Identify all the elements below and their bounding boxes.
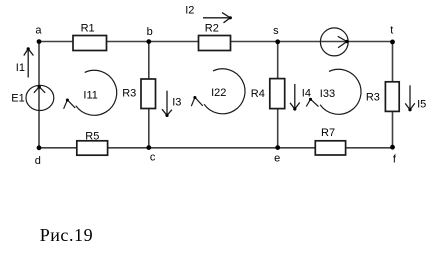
- resistor R1: [73, 36, 107, 51]
- arrow I5 dot: [408, 108, 411, 111]
- current source arrow dot: [345, 40, 348, 43]
- arrow I1 dot: [27, 47, 30, 50]
- svg-text:I4: I4: [302, 87, 311, 99]
- resistor R4: [270, 79, 285, 109]
- svg-text:E1: E1: [11, 93, 24, 105]
- mesh loop I33 arc: [320, 69, 361, 114]
- svg-text:R1: R1: [81, 23, 95, 35]
- svg-text:d: d: [35, 155, 41, 167]
- svg-text:I3: I3: [172, 97, 181, 109]
- svg-text:a: a: [35, 24, 42, 36]
- svg-text:I5: I5: [417, 99, 426, 111]
- arrow I2 dot: [229, 16, 232, 19]
- source E1 arrow: [34, 87, 45, 93]
- svg-text:I2: I2: [185, 5, 194, 17]
- arrow I1: [24, 49, 34, 78]
- wire left a-d: [38, 42, 40, 148]
- resistor R3 (t-f branch): [385, 82, 399, 112]
- mesh loop I33 arrowhead: [306, 99, 318, 106]
- svg-text:s: s: [273, 25, 279, 37]
- node t: [390, 40, 395, 45]
- node f: [390, 145, 395, 150]
- source E1 arrow dot: [38, 85, 41, 88]
- source E1 circle: [26, 85, 54, 110]
- svg-text:c: c: [150, 152, 156, 164]
- resistor R7: [315, 141, 345, 155]
- wire t-f: [392, 42, 394, 148]
- svg-text:I1: I1: [16, 62, 25, 74]
- node s: [275, 39, 280, 44]
- svg-text:e: e: [274, 153, 280, 165]
- node b: [146, 39, 151, 44]
- svg-text:t: t: [390, 25, 393, 37]
- wire bottom d-f: [39, 147, 393, 149]
- mesh loop I22 arc: [204, 69, 245, 114]
- svg-text:R5: R5: [85, 130, 99, 142]
- node a: [37, 39, 42, 44]
- mesh loop I11 dot: [66, 98, 69, 101]
- arrow I4: [290, 84, 300, 109]
- svg-text:I11: I11: [83, 89, 97, 101]
- current source arrow: [338, 36, 347, 47]
- wire b-c: [148, 42, 150, 148]
- svg-text:R7: R7: [321, 127, 335, 139]
- node c: [146, 145, 151, 150]
- node d: [37, 145, 42, 150]
- resistor R5: [77, 141, 108, 155]
- svg-text:Рис.19: Рис.19: [40, 225, 93, 245]
- arrow I3: [162, 91, 172, 116]
- mesh loop I33 dot: [309, 98, 312, 101]
- svg-text:I22: I22: [211, 87, 226, 99]
- node e: [275, 145, 280, 150]
- resistor R3 (b-c branch): [141, 79, 156, 109]
- current source circle (s-t): [320, 28, 348, 56]
- wire s-e: [277, 42, 279, 148]
- svg-text:b: b: [147, 26, 153, 38]
- mesh loop I22 arrowhead: [191, 97, 203, 106]
- mesh loop I22 dot: [193, 96, 196, 99]
- svg-text:R2: R2: [205, 22, 219, 34]
- mesh loop I11 arc: [76, 70, 117, 115]
- arrow I4 dot: [293, 107, 296, 110]
- resistor R2: [199, 36, 231, 51]
- svg-text:R3: R3: [122, 88, 136, 100]
- svg-text:R4: R4: [251, 88, 265, 100]
- mesh loop I11 arrowhead: [64, 100, 76, 109]
- svg-text:R3: R3: [366, 92, 380, 104]
- svg-text:I33: I33: [320, 88, 335, 100]
- arrow I3 dot: [165, 114, 168, 117]
- arrow I5: [405, 85, 415, 109]
- arrow I2: [203, 13, 230, 23]
- wire top a-t: [39, 41, 393, 43]
